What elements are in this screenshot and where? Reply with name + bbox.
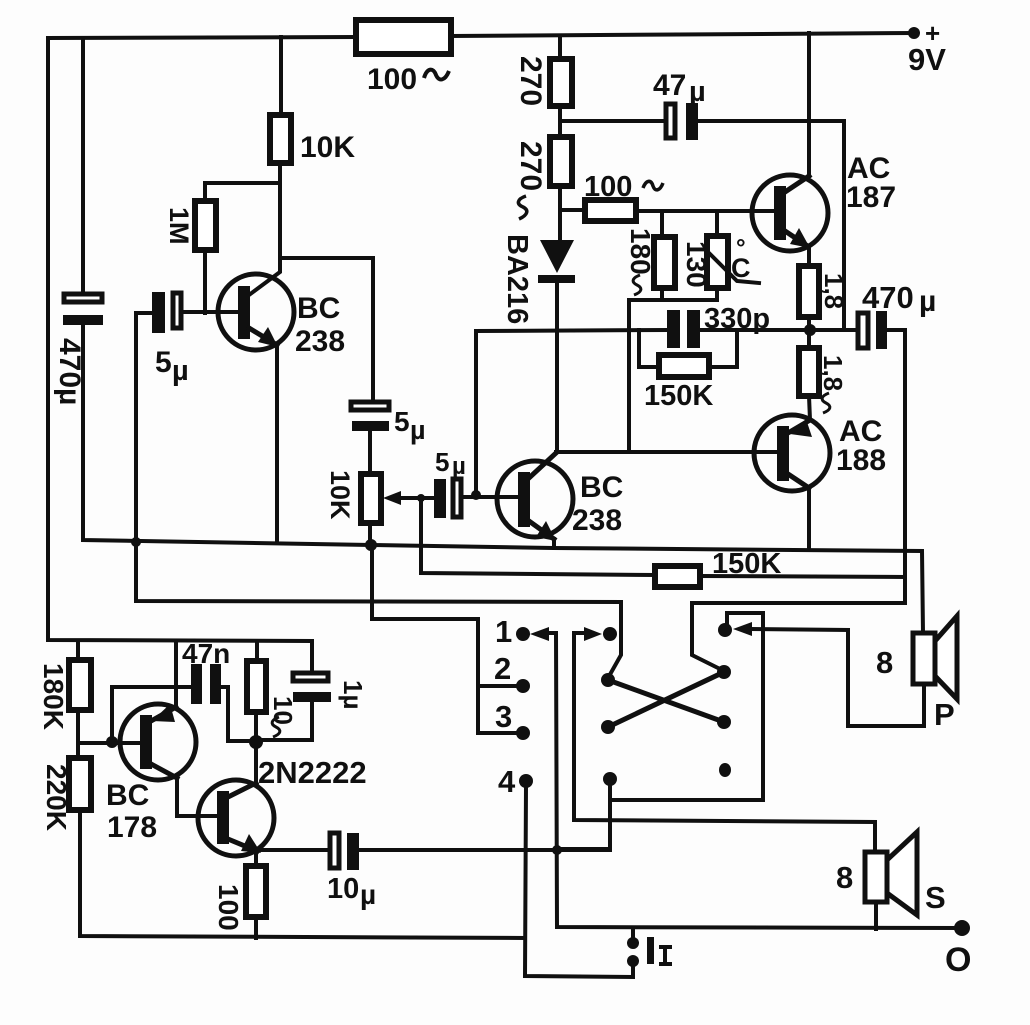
wire 150K dc feedback right end: [700, 576, 905, 577]
wire contact 4 down to switch lower contact: [525, 786, 633, 977]
label squiggle 270b (rotated): [518, 196, 526, 219]
transistor Q4 base bar: [777, 426, 789, 481]
capacitor 5u2 outline plate (top): [351, 402, 389, 410]
wire 130 bottom: [662, 288, 717, 300]
resistor 1.8 upper: [799, 266, 819, 317]
svg-text:µ: µ: [452, 453, 466, 480]
switch I actuator bar: [647, 937, 654, 964]
node stray contact dot: [719, 763, 731, 777]
svg-text:150K: 150K: [644, 380, 713, 412]
capacitor 470u left electrolytic top plate: [64, 294, 102, 302]
capacitor 1u outline plate (top): [293, 673, 328, 681]
speaker P frame: [913, 633, 935, 684]
label squiggle 100 ohm top: [424, 70, 449, 80]
transistor Q4 AC188 circle: [754, 415, 830, 491]
label squiggle 180 (rotated): [633, 275, 641, 295]
capacitor 47u outline plate: [666, 104, 675, 138]
wire rail to 10 ohm top: [255, 641, 259, 661]
wire Q1 emitter down to rail: [275, 345, 279, 542]
svg-text:5: 5: [394, 406, 410, 437]
wire 330p right to output node: [700, 328, 860, 332]
wire AC188 base wire: [556, 450, 777, 454]
capacitor 470u left electrolytic bottom plate: [63, 315, 103, 325]
capacitor 47n plate A: [191, 664, 202, 704]
node output junction dot: [804, 324, 816, 336]
svg-text:µ: µ: [360, 879, 376, 910]
svg-text:1µ: 1µ: [338, 680, 368, 709]
node right contact dot: [718, 623, 732, 637]
wire right arrow tail to speaker P return: [848, 630, 924, 726]
potentiometer 10K body: [361, 474, 381, 523]
label squiggle 10 ohm (rotated): [272, 717, 280, 737]
switch plug arrow 2: [574, 631, 588, 635]
transistor Q4 emitter diagonal with inward arrow: [788, 420, 810, 433]
wire Q3 collector to 9V: [807, 33, 811, 176]
svg-text:1,8: 1,8: [818, 355, 848, 391]
wire 1M bottom to base: [203, 250, 207, 313]
speaker P cone: [935, 616, 957, 699]
svg-text:2: 2: [494, 651, 511, 686]
transistor Q1 emitter diagonal with arrow: [249, 328, 277, 345]
svg-text:8: 8: [836, 860, 853, 895]
resistor 180 ohm: [654, 237, 675, 288]
node contact 3 dot: [516, 726, 530, 740]
wire left outer vertical and lower supply rail to 1u cap: [48, 38, 312, 673]
capacitor 47n plate B: [210, 664, 221, 704]
svg-text:130: 130: [681, 241, 712, 288]
wire speaker S bottom to output wire: [874, 902, 878, 929]
svg-text:4: 4: [498, 764, 516, 799]
transistor Q6 collector diagonal: [228, 783, 256, 797]
wire Q3 emitter to 1.8 resistor: [807, 247, 811, 266]
node switch cross dot A: [601, 673, 615, 687]
wire 470u bottom to long rail and rail to speaker P: [83, 324, 923, 633]
potentiometer wiper arrow: [398, 496, 434, 500]
switch I upper contact stub and dot: [631, 929, 635, 938]
wire 1u bottom to collector node: [256, 702, 312, 740]
switch plug arrow 1: [544, 631, 556, 635]
diode BA216 cathode bar: [538, 275, 575, 283]
svg-text:µ: µ: [919, 285, 936, 318]
transistor Q2 base bar: [518, 472, 530, 527]
transistor Q1 base bar: [238, 286, 250, 339]
svg-text:µ: µ: [410, 415, 426, 445]
wire 270b bottom to diode and 100mid: [558, 186, 562, 240]
wire diode cathode down to Q2 collector node: [555, 283, 559, 452]
svg-text:238: 238: [295, 325, 345, 358]
capacitor 47u solid plate: [686, 103, 698, 140]
capacitor 10u solid plate: [347, 833, 359, 870]
transistor Q1 BC238 circle: [218, 274, 294, 350]
svg-text:178: 178: [107, 811, 157, 844]
resistor 270 upper: [550, 59, 572, 106]
svg-text:1,8: 1,8: [819, 273, 849, 309]
wire Q5 emitter to supply rail: [174, 641, 178, 707]
transistor Q4 collector diagonal: [788, 474, 809, 488]
capacitor 330p plate B: [687, 310, 700, 348]
diode BA216 triangle: [540, 240, 574, 273]
capacitor 470u output solid plate: [876, 311, 887, 349]
capacitor 330p plate A: [667, 310, 680, 348]
wire contact 3 link: [478, 686, 523, 733]
thermistor 130 body: [707, 236, 728, 288]
svg-text:C: C: [731, 253, 751, 283]
wire 10K bottom to BC238 collector: [249, 163, 280, 295]
svg-text:188: 188: [836, 444, 886, 477]
svg-text:180: 180: [625, 228, 656, 275]
wire BC178 base wire: [78, 741, 140, 745]
resistor 100 ohm top: [356, 20, 451, 54]
transistor Q3 collector diagonal: [785, 176, 809, 192]
wire 5u2 to potentiometer: [368, 430, 372, 474]
wire 9V rail to 10K top: [279, 37, 283, 115]
capacitor 5u3 outline plate: [453, 479, 461, 517]
switch I lower contact dot: [627, 955, 639, 967]
node junction collector node dot: [249, 735, 263, 749]
node junction base feedback: [471, 490, 481, 500]
wire 220K bottom to ground rail: [80, 810, 525, 938]
wire 270b node to 100 driver: [560, 208, 585, 212]
wire feedback node down to 150K dc feedback: [421, 498, 655, 575]
node switch cross dot C: [601, 720, 615, 734]
svg-text:BC: BC: [106, 779, 149, 812]
transistor Q3 emitter diagonal with arrow: [785, 231, 806, 245]
speaker S frame: [865, 852, 887, 902]
svg-text:µ: µ: [689, 76, 706, 108]
wire 470u branch vertical top: [81, 38, 85, 295]
transistor Q5 BC178 circle: [120, 704, 196, 780]
transistor Q3 base bar: [774, 186, 786, 240]
wire 180 and 130 bottoms to AC188 base: [629, 288, 662, 452]
svg-text:O: O: [945, 941, 971, 979]
svg-text:47: 47: [653, 69, 686, 102]
wire Q2 emitter to rail: [552, 539, 556, 548]
wire switch cross diagonal A-D: [608, 680, 724, 722]
node junction 47n loop on base: [106, 736, 118, 748]
wire emitter node to 100 ohm: [254, 851, 258, 866]
svg-text:2N2222: 2N2222: [258, 755, 367, 790]
svg-text:1: 1: [495, 614, 512, 649]
speaker S cone: [887, 832, 917, 915]
transistor Q5 collector diagonal: [151, 764, 177, 778]
switch plug arrow right: [750, 629, 848, 630]
resistor 1M feedback: [195, 201, 216, 250]
node junction tick line dot: [552, 845, 562, 855]
capacitor 5u3 solid plate: [434, 479, 446, 518]
svg-text:47n: 47n: [182, 638, 230, 669]
wire 10 ohm bottom to collector node: [254, 712, 258, 744]
wire 9V rail to 270: [558, 36, 562, 59]
node output terminal O dot: [954, 920, 970, 936]
svg-text:180K: 180K: [38, 663, 69, 730]
resistor 220K: [69, 758, 91, 810]
capacitor 5u input outline plate: [173, 293, 181, 328]
svg-text:9V: 9V: [908, 42, 946, 77]
transistor Q2 BC238 circle: [497, 461, 573, 537]
resistor 100 ohm driver: [585, 200, 636, 221]
label I: [659, 947, 672, 964]
transistor Q6 2N2222 circle: [198, 780, 274, 856]
wire Q5 collector to 2N2222 base: [177, 778, 218, 816]
svg-text:187: 187: [846, 181, 896, 214]
wire pole lower dot loop to right contact tab: [610, 613, 763, 800]
wire 100 bottom to ground rail: [254, 917, 258, 938]
node junction input line on rail: [131, 537, 141, 547]
wire 1.8 to output node: [807, 317, 811, 330]
wire 1.8 lower to AC188 emitter: [809, 396, 810, 420]
thermistor 130 strike line: [708, 252, 759, 283]
node contact 4 dot: [519, 774, 533, 788]
wire pot bottom to rail: [368, 523, 372, 545]
transistor Q2 collector diagonal: [529, 453, 556, 478]
svg-text:S: S: [925, 880, 946, 915]
wire 100 driver to AC187 base: [636, 209, 774, 213]
resistor 180K: [69, 660, 91, 710]
svg-text:10K: 10K: [300, 131, 355, 164]
svg-text:470: 470: [862, 280, 914, 315]
capacitor 10u outline plate: [330, 833, 339, 868]
wire tick line vertical to on-off switch: [556, 633, 962, 928]
svg-text:100: 100: [213, 884, 244, 931]
svg-text:150K: 150K: [712, 548, 781, 580]
node switch cross dot D: [717, 715, 731, 729]
wire pole lower dot down to tick junction: [558, 784, 610, 849]
svg-text:8: 8: [876, 645, 893, 680]
svg-text:270: 270: [514, 56, 547, 106]
node pole dot left top: [603, 627, 617, 641]
capacitor 5u input solid plate: [152, 292, 165, 333]
node 9V terminal dot: [908, 27, 920, 39]
svg-text:3: 3: [495, 699, 512, 734]
svg-text:238: 238: [572, 504, 622, 537]
wire 5u3 to BC238 Q2 base: [461, 495, 518, 499]
node junction pot bottom on rail: [365, 539, 377, 551]
svg-text:5: 5: [155, 346, 172, 379]
transistor Q5 emitter diagonal with inward arrow: [151, 707, 176, 721]
transistor Q2 emitter diagonal with arrow: [529, 521, 554, 539]
wire switch cross diagonal C-B: [608, 672, 724, 727]
wire contact 2 and 3 to rail: [372, 545, 523, 686]
capacitor 470u output outline plate: [858, 313, 868, 348]
svg-text:BC: BC: [580, 471, 623, 504]
wire feedback network right link: [709, 330, 737, 367]
transistor Q5 base bar: [140, 715, 152, 769]
svg-text:10: 10: [327, 873, 359, 905]
svg-text:10K: 10K: [325, 470, 355, 520]
transistor Q6 base bar: [217, 791, 229, 844]
svg-text:220K: 220K: [41, 764, 72, 831]
wire emitter node to 10u cap: [257, 848, 330, 852]
node contact 1 dot: [516, 627, 530, 641]
resistor 10 ohm: [247, 661, 266, 712]
wire arrow2 tail down to speaker S feed: [574, 633, 875, 852]
wire Q1 collector to 5u2 cap: [280, 258, 373, 402]
wire top supply rail left segment: [48, 37, 356, 38]
svg-text:100: 100: [367, 63, 417, 96]
wire 47u to output node: [698, 121, 844, 330]
wire 270 to 270b link: [558, 106, 562, 137]
svg-text:µ: µ: [172, 355, 189, 387]
wire rail to 180K top: [76, 641, 80, 660]
wire 130 top lead: [715, 211, 719, 236]
wire 470u output to switch feed: [692, 330, 905, 671]
capacitor 5u2 solid plate (bottom): [352, 421, 389, 431]
resistor 270b lower: [550, 137, 572, 186]
transistor Q3 AC187 circle: [752, 175, 828, 251]
label squiggle 1,8 lower (rotated): [822, 393, 830, 413]
wire output node to 1.8 lower: [807, 330, 811, 348]
svg-text:BC: BC: [297, 292, 340, 325]
wire collector node down to 2N2222: [254, 744, 258, 783]
resistor 100 ohm emitter: [246, 866, 266, 917]
wire 180 top lead: [660, 211, 664, 237]
wire 10u right to tick line: [359, 848, 610, 852]
wire feedback network left link: [639, 330, 659, 367]
wire 180K bottom to base node: [76, 710, 80, 758]
resistor 10K collector load: [270, 115, 291, 163]
node junction wiper wire: [417, 494, 425, 502]
wire top supply rail right segment to 9V terminal: [451, 33, 914, 36]
wire base node up to feedback network: [476, 330, 668, 497]
svg-text:P: P: [934, 697, 955, 732]
resistor 1.8 lower: [799, 348, 819, 396]
svg-text:270: 270: [514, 141, 547, 191]
node switch cross dot B: [717, 665, 731, 679]
wire input line from 5u left plate down to switch wire: [136, 313, 621, 678]
wire 47n loop to base: [112, 687, 191, 743]
svg-text:5: 5: [435, 447, 449, 477]
label squiggle 100 driver: [643, 181, 663, 190]
node pole lower dot: [603, 772, 617, 786]
wire 5u to BC238 base: [181, 310, 238, 314]
svg-text:BA216: BA216: [501, 234, 533, 324]
wire 47n right to collector node: [221, 687, 256, 741]
wire 47u branch: [560, 119, 667, 123]
wire 1M top to collector line: [205, 183, 280, 201]
node contact 2 dot: [516, 679, 530, 693]
resistor 150K feedback ac: [659, 355, 709, 377]
resistor 150K dc feedback: [655, 566, 700, 587]
transistor Q6 emitter diagonal with arrow: [228, 839, 257, 851]
svg-text:100: 100: [584, 171, 632, 203]
wire Q4 collector to rail: [807, 488, 811, 549]
capacitor 1u solid plate (bottom): [293, 692, 331, 702]
svg-text:1M: 1M: [164, 207, 194, 245]
